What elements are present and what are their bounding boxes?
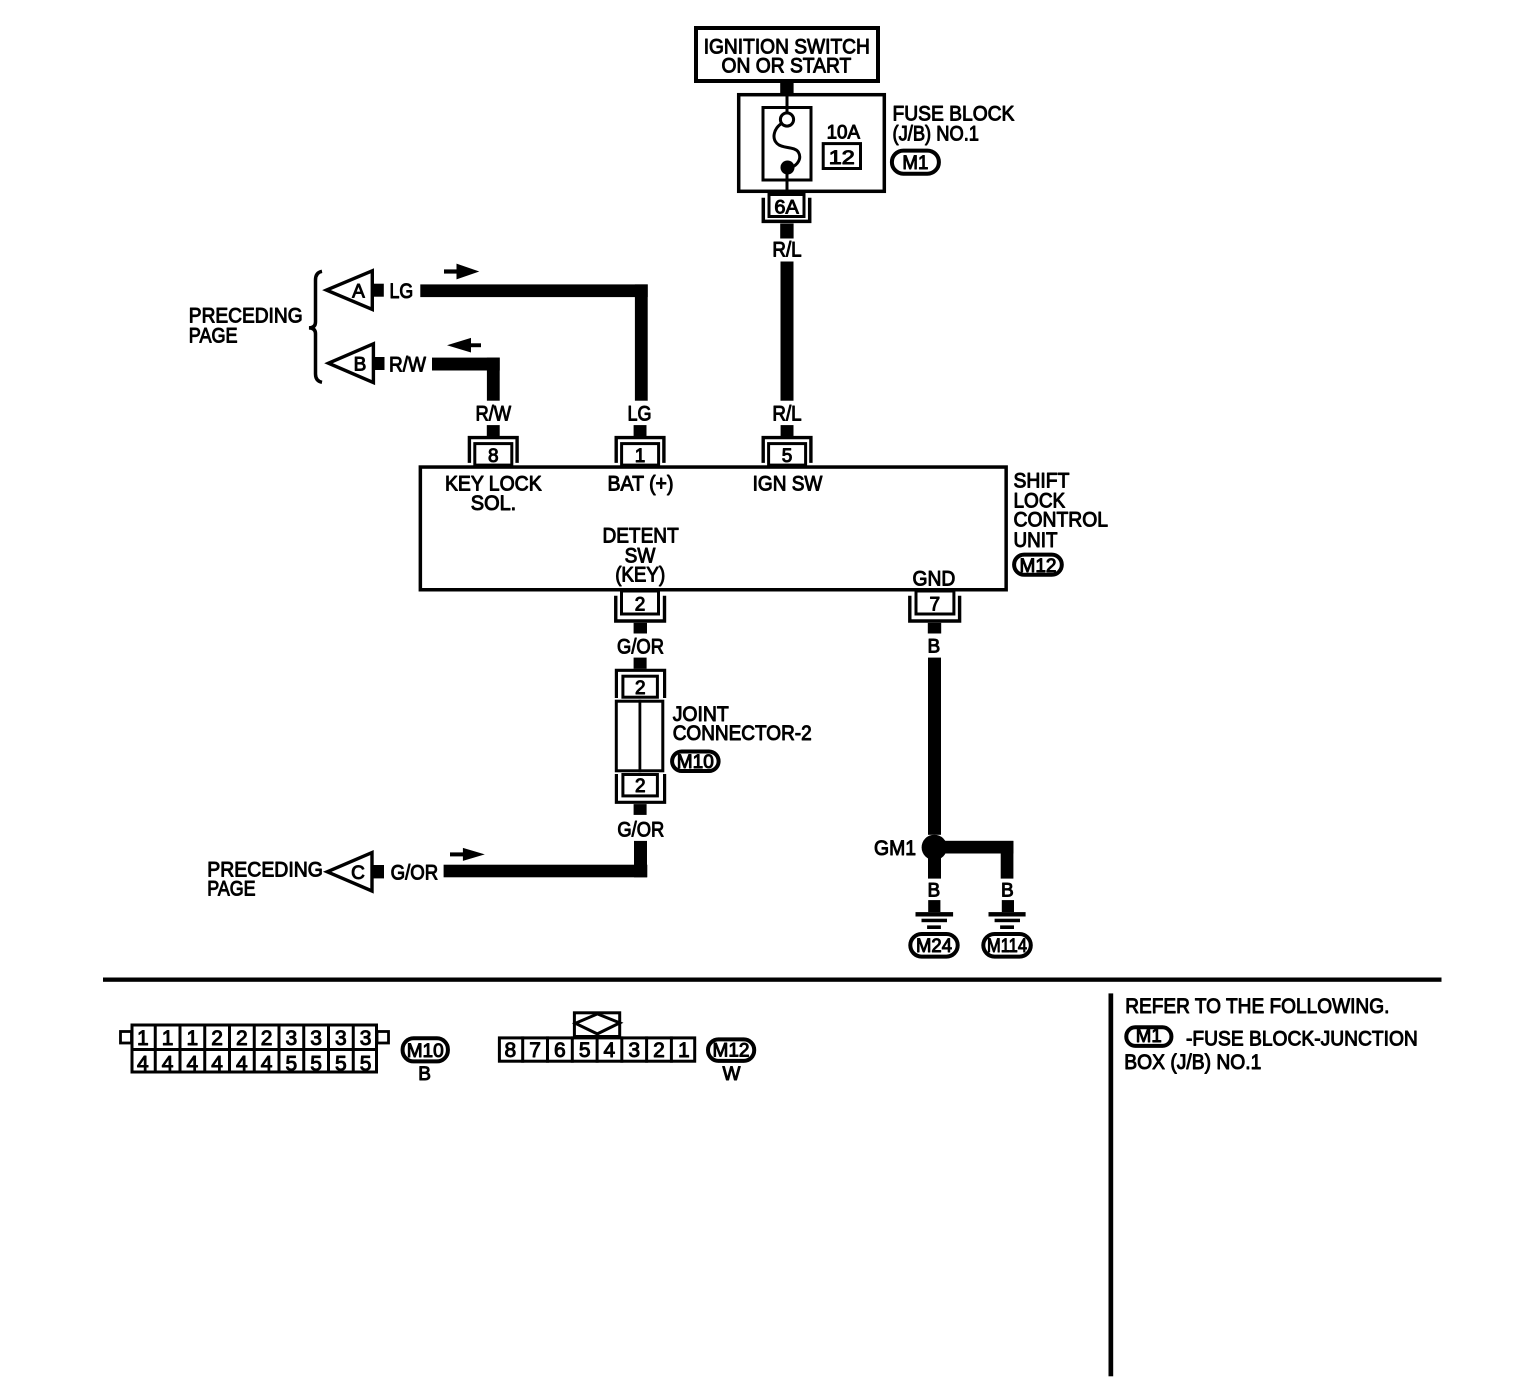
pin 8 connector (469, 425, 517, 467)
svg-text:4: 4 (162, 1052, 174, 1075)
svg-text:(KEY): (KEY) (615, 564, 665, 587)
connector oval M12 (1014, 555, 1062, 577)
svg-text:2: 2 (635, 776, 646, 797)
wire G/OR to preceding page (444, 841, 648, 877)
svg-text:B: B (354, 354, 367, 375)
svg-text:1: 1 (635, 446, 646, 467)
node C (preceding page arrow) (327, 853, 384, 891)
svg-text:GM1: GM1 (874, 837, 916, 860)
svg-text:B: B (418, 1064, 431, 1085)
note -FUSE BLOCK-JUNCTION BOX (J/B) NO.1 (1124, 1028, 1418, 1075)
svg-text:4: 4 (261, 1052, 273, 1075)
pin label IGN SW (753, 473, 823, 496)
wire LG (420, 284, 647, 400)
svg-text:(J/B) NO.1: (J/B) NO.1 (893, 123, 980, 146)
connector oval M114 (983, 934, 1031, 957)
wire R/L vertical (781, 262, 794, 401)
connector face view M12 (499, 1013, 694, 1063)
ground M24 (916, 900, 954, 929)
svg-text:5: 5 (360, 1052, 372, 1075)
wire label R/W above pin 8 (475, 402, 511, 425)
wire R/W (432, 358, 500, 401)
svg-text:4: 4 (604, 1039, 616, 1062)
svg-text:2: 2 (261, 1027, 273, 1050)
svg-text:5: 5 (335, 1052, 347, 1075)
flow arrow right above G/OR wire (450, 848, 485, 861)
wire label B right (1001, 881, 1014, 902)
svg-text:4: 4 (211, 1052, 223, 1075)
connector color label W (723, 1064, 741, 1085)
svg-text:3: 3 (628, 1039, 640, 1062)
svg-text:6A: 6A (774, 198, 799, 219)
preceding page label bottom (207, 858, 323, 900)
svg-text:12: 12 (829, 148, 855, 169)
wire label B left (927, 881, 940, 902)
svg-text:PAGE: PAGE (207, 878, 255, 901)
svg-text:B: B (927, 881, 940, 902)
svg-text:3: 3 (335, 1027, 347, 1050)
svg-text:BOX (J/B) NO.1: BOX (J/B) NO.1 (1124, 1051, 1261, 1074)
svg-text:B: B (927, 636, 940, 657)
fuse number box 12 (823, 144, 860, 169)
wire label R/L above pin 5 (772, 403, 801, 426)
wire label R/W at node B (389, 354, 426, 377)
node B (preceding page arrow) (329, 344, 385, 383)
svg-text:M10: M10 (407, 1041, 444, 1062)
svg-text:1: 1 (137, 1027, 149, 1050)
svg-text:2: 2 (635, 678, 646, 699)
connector oval M24 (910, 934, 957, 957)
svg-text:A: A (352, 281, 365, 302)
wire stub to joint connector (634, 658, 647, 669)
wire GM1 to right ground (938, 841, 1013, 879)
shift lock control unit box U1 (420, 467, 1006, 590)
wire label G/OR at node C (391, 862, 439, 885)
svg-text:7: 7 (930, 595, 941, 616)
svg-text:5: 5 (782, 446, 793, 467)
wire label G/OR below joint connector (617, 819, 664, 842)
svg-text:3: 3 (360, 1027, 372, 1050)
svg-text:BAT (+): BAT (+) (608, 473, 674, 496)
svg-text:2: 2 (635, 595, 646, 616)
svg-text:4: 4 (236, 1052, 248, 1075)
wire stub below 6A (780, 224, 793, 239)
svg-text:2: 2 (653, 1039, 665, 1062)
wire stub below joint connector (634, 804, 647, 815)
svg-text:R/W: R/W (475, 402, 511, 425)
connector color label B (418, 1064, 431, 1085)
svg-text:ON OR START: ON OR START (722, 54, 852, 77)
node GM1 junction dot (922, 835, 947, 860)
pin 5 connector (763, 425, 811, 467)
svg-text:R/W: R/W (389, 354, 426, 377)
fuse 10A No.12 (763, 95, 811, 192)
svg-text:G/OR: G/OR (617, 635, 664, 658)
wire label B below pin 7 (927, 636, 940, 657)
svg-text:3: 3 (310, 1027, 322, 1050)
note REFER TO THE FOLLOWING. (1125, 995, 1389, 1018)
svg-text:LG: LG (390, 280, 414, 303)
svg-text:M114: M114 (987, 936, 1027, 957)
svg-text:M1: M1 (902, 153, 928, 174)
ground M114 (989, 900, 1026, 929)
fuse rating label 10A (827, 122, 861, 143)
flow arrow right above LG wire (444, 264, 479, 280)
brace (309, 271, 322, 382)
label JOINT CONNECTOR-2 (673, 703, 812, 745)
pin 1 connector (616, 425, 664, 467)
svg-text:4: 4 (187, 1052, 199, 1075)
svg-text:REFER TO THE FOLLOWING.: REFER TO THE FOLLOWING. (1125, 995, 1389, 1018)
label FUSE BLOCK (J/B) NO.1 (893, 103, 1015, 146)
pin label GND (913, 567, 956, 590)
flow arrow left above R/W wire (447, 338, 481, 353)
svg-text:6: 6 (554, 1039, 566, 1062)
svg-text:CONNECTOR-2: CONNECTOR-2 (673, 722, 812, 745)
svg-text:IGN SW: IGN SW (753, 473, 823, 496)
fuse block (J/B) no.1 box M1 (739, 95, 885, 192)
svg-text:4: 4 (137, 1052, 149, 1075)
svg-text:2: 2 (211, 1027, 223, 1050)
svg-text:B: B (1001, 881, 1014, 902)
ignition switch box (696, 28, 878, 81)
svg-text:PAGE: PAGE (189, 325, 238, 348)
pin label KEY LOCK SOL. (445, 473, 542, 516)
pin 7 connector (910, 591, 960, 634)
svg-text:W: W (723, 1064, 741, 1085)
label GM1 (874, 837, 916, 860)
svg-text:M12: M12 (713, 1041, 750, 1062)
svg-text:2: 2 (236, 1027, 248, 1050)
connector 6A below fuse block (763, 195, 809, 222)
svg-text:8: 8 (488, 446, 499, 467)
wire label LG above pin 1 (628, 403, 652, 426)
connector face view M10 (121, 1024, 389, 1076)
svg-text:5: 5 (286, 1052, 298, 1075)
svg-text:1: 1 (187, 1027, 199, 1050)
connector oval M12 face view (708, 1039, 754, 1061)
svg-text:5: 5 (310, 1052, 322, 1075)
svg-text:GND: GND (913, 567, 956, 590)
pin label BAT (+) (608, 473, 674, 496)
vertical divider line (1109, 993, 1114, 1376)
wire label LG at node A (390, 280, 414, 303)
svg-text:M24: M24 (916, 936, 952, 957)
svg-text:3: 3 (286, 1027, 298, 1050)
svg-text:R/L: R/L (772, 239, 801, 262)
wire GM1 to left ground (928, 857, 941, 879)
wire ignition to fuse block (780, 82, 793, 94)
svg-text:7: 7 (529, 1039, 541, 1062)
svg-text:G/OR: G/OR (391, 862, 439, 885)
svg-text:M1: M1 (1136, 1026, 1162, 1047)
svg-text:SOL.: SOL. (471, 492, 516, 515)
svg-text:10A: 10A (827, 122, 861, 143)
svg-text:LG: LG (628, 403, 652, 426)
svg-text:G/OR: G/OR (617, 819, 664, 842)
separator line (103, 978, 1442, 982)
connector oval M10 face view (403, 1038, 448, 1062)
svg-text:C: C (351, 863, 365, 884)
connector oval M1 (892, 151, 939, 174)
svg-text:1: 1 (162, 1027, 174, 1050)
preceding page label top (189, 305, 303, 348)
wire B from pin 7 to GM1 (928, 658, 941, 835)
wire label R/L (772, 239, 801, 262)
wire label G/OR below pin 2 (617, 635, 664, 658)
svg-text:M12: M12 (1020, 556, 1057, 577)
svg-text:-FUSE BLOCK-JUNCTION: -FUSE BLOCK-JUNCTION (1186, 1028, 1418, 1051)
pin 2 connector (616, 591, 665, 634)
connector oval M10 (672, 752, 719, 774)
svg-text:UNIT: UNIT (1014, 529, 1058, 552)
svg-text:R/L: R/L (772, 403, 801, 426)
label SHIFT LOCK CONTROL UNIT (1014, 470, 1109, 553)
svg-text:5: 5 (579, 1039, 591, 1062)
svg-text:M10: M10 (677, 752, 714, 773)
label DETENT SW (KEY) (602, 525, 678, 587)
joint connector-2 M10 (616, 670, 664, 802)
node A (preceding page arrow) (327, 271, 384, 310)
connector oval M1 note (1126, 1026, 1171, 1047)
svg-text:1: 1 (678, 1039, 690, 1062)
svg-text:8: 8 (504, 1039, 516, 1062)
